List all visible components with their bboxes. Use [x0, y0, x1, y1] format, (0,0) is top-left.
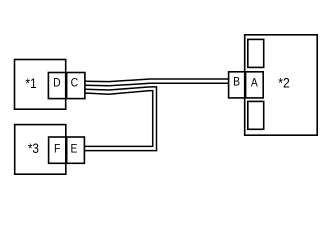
- component box *2: [245, 35, 318, 135]
- svg-text:B: B: [233, 76, 240, 89]
- divider between D and C: [66, 73, 68, 99]
- connector F/E outline: [49, 137, 85, 163]
- connector D/C outline: [48, 73, 85, 99]
- svg-text:*1: *1: [26, 77, 37, 92]
- wire C to B lower line: [85, 83, 229, 86]
- svg-text:E: E: [70, 143, 77, 156]
- divider between F and E: [66, 137, 68, 163]
- unused connector tab bottom: [248, 101, 264, 129]
- component box *3: [15, 125, 66, 175]
- divider between B and A: [245, 72, 247, 98]
- wire C to E outer line: [84, 87, 156, 151]
- wire C to B upper line: [85, 79, 229, 82]
- svg-text:D: D: [53, 77, 61, 90]
- svg-text:C: C: [71, 77, 79, 90]
- svg-text:*3: *3: [28, 141, 39, 156]
- component box *1: [15, 60, 66, 110]
- connector B/A outline: [229, 72, 264, 98]
- svg-text:*2: *2: [278, 74, 290, 90]
- svg-text:F: F: [54, 143, 61, 156]
- wire C to E inner line: [84, 91, 152, 147]
- svg-text:A: A: [251, 77, 258, 90]
- unused connector tab top: [248, 39, 264, 67]
